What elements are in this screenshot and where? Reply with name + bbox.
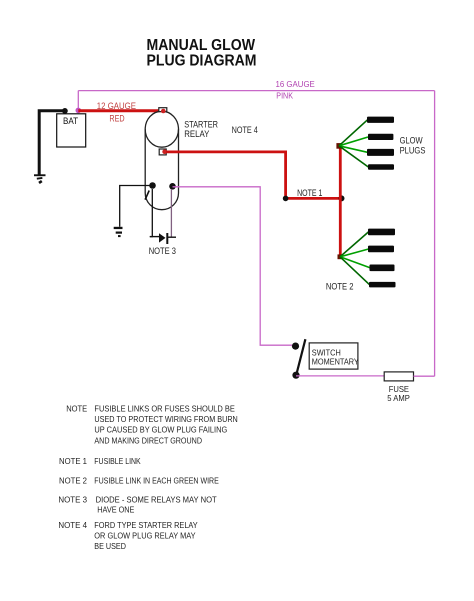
svg-text:GLOW: GLOW xyxy=(400,135,423,145)
svg-text:NOTE 4: NOTE 4 xyxy=(58,520,87,530)
svg-text:HAVE ONE: HAVE ONE xyxy=(97,505,134,515)
wire pink relay right terminal to switch xyxy=(173,187,293,345)
svg-text:FORD TYPE STARTER RELAY: FORD TYPE STARTER RELAY xyxy=(94,520,198,530)
wire relay left terminal down to diode anode xyxy=(150,189,153,237)
svg-text:NOTE: NOTE xyxy=(66,403,87,413)
node junction at bus tee xyxy=(339,195,345,201)
wire pink 16-gauge top horizontal xyxy=(78,90,434,92)
wire red 12-gauge battery to relay xyxy=(78,109,164,112)
svg-text:PINK: PINK xyxy=(276,90,293,100)
svg-text:NOTE 1: NOTE 1 xyxy=(297,188,322,198)
label GLOW PLUGS xyxy=(400,135,426,155)
node relay left terminal xyxy=(149,182,156,189)
wire hook mark below left terminal xyxy=(145,191,149,200)
node red dot at relay top terminal xyxy=(161,109,166,114)
ground relay xyxy=(114,227,123,237)
svg-text:OR GLOW PLUG RELAY MAY: OR GLOW PLUG RELAY MAY xyxy=(94,531,196,541)
relay bottom terminal tab xyxy=(159,149,166,155)
node junction at note1 corner xyxy=(283,196,289,202)
wire relay left terminal to ground xyxy=(120,186,153,227)
notes block xyxy=(58,403,237,551)
label box SWITCH MOMENTARY xyxy=(309,343,359,369)
glow plugs bank 1 xyxy=(367,117,394,170)
node battery positive junction xyxy=(62,108,68,114)
svg-text:DIODE - SOME RELAYS MAY NOT: DIODE - SOME RELAYS MAY NOT xyxy=(96,495,217,505)
label STARTER RELAY xyxy=(184,120,218,139)
svg-text:AND MAKING DIRECT GROUND: AND MAKING DIRECT GROUND xyxy=(94,436,202,446)
svg-text:RED: RED xyxy=(109,113,125,123)
svg-text:NOTE 2: NOTE 2 xyxy=(326,282,354,292)
svg-text:16 GAUGE: 16 GAUGE xyxy=(276,79,316,89)
svg-text:NOTE 3: NOTE 3 xyxy=(149,246,176,256)
title xyxy=(147,37,257,69)
node relay right terminal xyxy=(169,183,176,190)
ground battery xyxy=(34,174,46,184)
wire red vertical bus between fan nodes xyxy=(339,146,342,256)
glow plugs bank 2 xyxy=(368,229,396,288)
node switch upper terminal xyxy=(292,343,299,350)
svg-text:FUSIBLE LINK IN EACH GREEN WIR: FUSIBLE LINK IN EACH GREEN WIRE xyxy=(94,476,219,486)
wire green glow plug leads bank 1 xyxy=(339,120,368,167)
svg-text:12 GAUGE: 12 GAUGE xyxy=(97,101,136,111)
svg-text:USED TO PROTECT WIRING FROM BU: USED TO PROTECT WIRING FROM BURN xyxy=(94,414,237,424)
node glow plug fan node 1 xyxy=(336,143,342,149)
svg-text:PLUGS: PLUGS xyxy=(400,145,426,155)
node glow plug fan node 2 xyxy=(338,254,343,259)
svg-text:UP CAUSED BY GLOW PLUG FAILING: UP CAUSED BY GLOW PLUG FAILING xyxy=(94,425,227,435)
switch S1 momentary xyxy=(292,339,306,379)
wire green glow plug leads bank 2 xyxy=(340,232,370,285)
node red dot at relay bottom terminal xyxy=(162,149,167,154)
wire pink fuse to right vertical xyxy=(414,375,435,377)
svg-text:PLUG DIAGRAM: PLUG DIAGRAM xyxy=(147,52,257,69)
wire relay right terminal down to diode cathode xyxy=(170,189,172,237)
fuse F1 xyxy=(384,372,413,381)
svg-text:NOTE 1: NOTE 1 xyxy=(59,456,87,466)
wire pink switch to fuse xyxy=(296,375,384,377)
svg-text:FUSIBLE LINK: FUSIBLE LINK xyxy=(94,456,141,466)
svg-text:RELAY: RELAY xyxy=(184,129,209,139)
svg-text:MOMENTARY: MOMENTARY xyxy=(312,357,359,367)
diode D1 xyxy=(150,233,176,244)
label 12 GAUGE RED xyxy=(97,101,136,123)
switch lever xyxy=(297,339,306,373)
label 16 GAUGE PINK xyxy=(276,79,316,100)
starter relay U1 body xyxy=(145,111,178,210)
wire pink right vertical down to fuse xyxy=(434,91,436,377)
node switch lower terminal xyxy=(292,372,299,379)
svg-text:5 AMP: 5 AMP xyxy=(387,393,410,403)
wire pink left vertical drop to battery junction xyxy=(77,91,79,111)
svg-text:FUSIBLE LINKS OR FUSES SHOULD: FUSIBLE LINKS OR FUSES SHOULD BE xyxy=(94,403,235,413)
battery BAT xyxy=(57,114,86,147)
svg-text:NOTE 3: NOTE 3 xyxy=(58,495,87,505)
relay top terminal tab xyxy=(159,108,167,112)
svg-text:NOTE 4: NOTE 4 xyxy=(232,125,258,135)
svg-text:NOTE 2: NOTE 2 xyxy=(59,476,87,486)
wire battery ground thick black xyxy=(39,111,65,175)
svg-text:BAT: BAT xyxy=(63,116,79,126)
node pink junction at battery xyxy=(76,108,82,114)
svg-text:BE USED: BE USED xyxy=(94,541,126,551)
label FUSE 5 AMP xyxy=(387,384,410,403)
wire red relay to glow plug bus xyxy=(166,152,342,199)
